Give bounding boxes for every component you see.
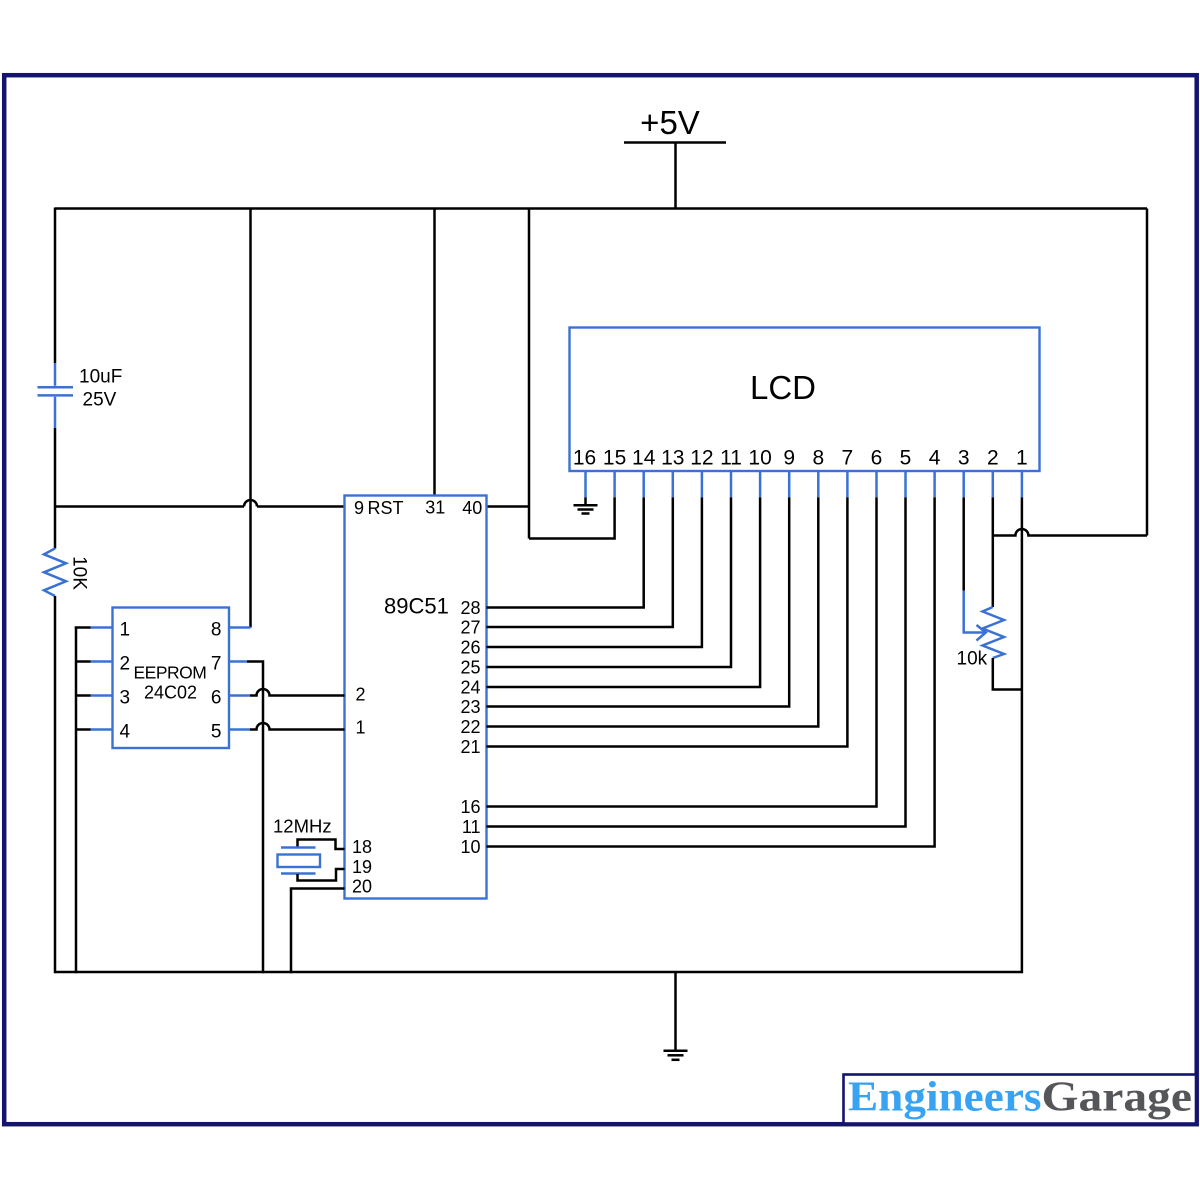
svg-text:1: 1 — [356, 718, 366, 738]
wire bottom ground rail — [55, 971, 1022, 974]
potentiometer wiper arrowhead — [977, 625, 986, 641]
wire 89C51 pin 16 to LCD pin 6 — [487, 498, 877, 807]
svg-text:23: 23 — [460, 697, 480, 717]
svg-text:10k: 10k — [957, 649, 988, 670]
LCD module box — [570, 328, 1040, 472]
svg-text:10: 10 — [748, 447, 771, 470]
svg-text:18: 18 — [352, 837, 372, 857]
svg-text:6: 6 — [211, 688, 222, 709]
89C51 left pin number labels — [352, 685, 372, 897]
capacitor C1 plates — [38, 387, 74, 395]
wire right rail to LCD pin 2 with hop — [993, 529, 1147, 535]
potentiometer RV1 zigzag — [983, 607, 1005, 658]
svg-text:Engineers: Engineers — [848, 1075, 1042, 1121]
wire vertical from rail toward pin 40 — [528, 209, 531, 539]
svg-text:89C51: 89C51 — [384, 594, 449, 619]
svg-text:11: 11 — [462, 817, 481, 837]
wire EEPROM pin5 to 89C51 pin1 with hop — [250, 723, 345, 730]
wire LCD pin 2 down to pot top — [992, 498, 995, 608]
89C51 microcontroller box — [345, 496, 487, 899]
wire 89C51 pin 27 to LCD pin 13 — [487, 498, 673, 628]
svg-text:14: 14 — [632, 447, 656, 470]
svg-text:2: 2 — [987, 447, 999, 470]
EEPROM pin1 wire to bus — [75, 626, 91, 629]
wire crystal bottom to 89C51 pin19 — [298, 869, 345, 881]
svg-text:6: 6 — [871, 447, 883, 470]
wire left rail upper segment (to capacitor) — [54, 208, 57, 364]
crystal X1 bottom plate — [281, 872, 316, 875]
+5V supply bar — [624, 141, 726, 144]
svg-text:13: 13 — [661, 447, 684, 470]
crystal X1 top plate — [281, 846, 316, 849]
svg-text:26: 26 — [460, 638, 480, 658]
svg-text:25: 25 — [460, 658, 480, 678]
svg-text:4: 4 — [120, 722, 131, 743]
ground symbol bottom center — [664, 1051, 688, 1060]
wire pin 40 horizontal — [487, 505, 530, 508]
wire 89C51 pin 21 to LCD pin 7 — [487, 498, 848, 747]
svg-text:10uF: 10uF — [79, 367, 122, 388]
wire 89C51 pin 23 to LCD pin 9 — [487, 498, 790, 707]
wire RST to pin 9 — [257, 505, 345, 508]
wire ground stub bottom center — [674, 972, 677, 1050]
svg-text:40: 40 — [462, 498, 482, 518]
EEPROM pin5 stub — [229, 728, 250, 731]
svg-text:11: 11 — [720, 447, 742, 470]
LCD pin stubs (blue) — [586, 471, 1022, 498]
wire RST hop over vertical — [244, 500, 257, 506]
LCD pin number labels 16..1 — [573, 447, 1028, 470]
wire 89C51 pin 22 to LCD pin 8 — [487, 498, 819, 727]
svg-text:4: 4 — [929, 447, 941, 470]
svg-text:1: 1 — [120, 620, 131, 641]
wire EEPROM left bus vertical — [75, 628, 78, 974]
node RST junction on left rail — [55, 505, 244, 508]
svg-text:5: 5 — [900, 447, 912, 470]
svg-text:28: 28 — [460, 598, 480, 618]
svg-text:8: 8 — [211, 620, 222, 641]
svg-text:2: 2 — [120, 654, 131, 675]
svg-text:3: 3 — [958, 447, 970, 470]
wire +5V stub — [674, 143, 677, 209]
wire 89C51 pin18 to crystal top — [298, 840, 345, 850]
svg-text:16: 16 — [460, 797, 480, 817]
EEPROM left pin labels — [120, 620, 131, 743]
svg-text:9: 9 — [783, 447, 795, 470]
wire vertical from rail to EEPROM pin 8 — [249, 209, 252, 628]
wire 89C51 pin20 to ground rail — [291, 889, 345, 974]
svg-text:+5V: +5V — [640, 104, 700, 141]
svg-text:19: 19 — [352, 857, 372, 877]
logo EngineersGarage box — [844, 1075, 1197, 1124]
resistor R1 10K zigzag — [44, 549, 66, 597]
svg-text:7: 7 — [842, 447, 854, 470]
svg-text:5: 5 — [211, 722, 222, 743]
EEPROM pin2 wire to bus — [76, 660, 91, 663]
wire right rail vertical — [1146, 209, 1149, 536]
wire 89C51 pin 11 to LCD pin 5 — [487, 498, 906, 827]
wire 89C51 pin 26 to LCD pin 12 — [487, 498, 702, 648]
wire 89C51 pin 25 to LCD pin 11 — [487, 498, 732, 668]
svg-text:9: 9 — [354, 498, 364, 518]
svg-text:25V: 25V — [83, 390, 117, 411]
wire vertical from rail to 89C51 pin 31 — [433, 209, 436, 496]
EEPROM pin8 stub — [229, 626, 251, 629]
svg-text:12: 12 — [690, 447, 713, 470]
svg-text:LCD: LCD — [750, 369, 816, 406]
svg-text:3: 3 — [120, 688, 131, 709]
svg-text:15: 15 — [603, 447, 626, 470]
svg-text:8: 8 — [812, 447, 824, 470]
svg-text:EEPROM: EEPROM — [134, 663, 207, 683]
wire left rail lower segment (resistor to ground rail) — [54, 596, 57, 973]
wire EEPROM pin6 to 89C51 pin2 with hop — [250, 689, 345, 695]
svg-text:10K: 10K — [69, 556, 90, 590]
svg-text:21: 21 — [460, 737, 480, 757]
89C51 right pin number labels — [460, 598, 480, 857]
svg-text:Garage: Garage — [1042, 1075, 1193, 1121]
wire left rail mid segment (capacitor to resistor) — [54, 428, 57, 549]
crystal X1 body — [278, 855, 321, 868]
ground under LCD pin 16 — [574, 498, 598, 514]
wire LCD pin 1 down to ground rail — [1021, 498, 1024, 974]
svg-text:16: 16 — [573, 447, 596, 470]
EEPROM right pin labels — [211, 620, 222, 743]
EEPROM 24C02 box — [113, 608, 230, 749]
EEPROM pin6 stub — [229, 694, 250, 697]
svg-text:22: 22 — [460, 717, 480, 737]
wire EEPROM pin7 to ground rail — [247, 662, 263, 974]
wire top +5V rail — [55, 207, 1147, 210]
wire pot bottom to LCD pin1 net — [993, 658, 1022, 690]
svg-text:2: 2 — [356, 685, 366, 705]
svg-text:12MHz: 12MHz — [273, 816, 332, 837]
svg-text:24C02: 24C02 — [144, 683, 197, 703]
capacitor C1 leads — [54, 363, 57, 428]
EEPROM pin7 stub — [229, 660, 247, 663]
svg-text:RST: RST — [368, 498, 404, 518]
svg-text:24: 24 — [460, 678, 480, 698]
wire 89C51 pin 28 to LCD pin 14 — [487, 498, 644, 608]
svg-text:10: 10 — [460, 837, 480, 857]
wire 89C51 pin 24 to LCD pin 10 — [487, 498, 761, 688]
wire to LCD pin 15 horizontal — [529, 498, 615, 539]
EEPROM pin3 wire to bus — [76, 694, 91, 697]
potentiometer wiper blue lead with arrow — [964, 591, 984, 633]
svg-text:27: 27 — [460, 618, 480, 638]
wire LCD pin 3 down to pot wiper lead — [962, 498, 965, 591]
EEPROM pin4 wire to bus — [76, 728, 91, 731]
svg-text:20: 20 — [352, 877, 372, 897]
svg-text:31: 31 — [425, 497, 445, 517]
svg-text:7: 7 — [211, 654, 222, 675]
svg-text:1: 1 — [1016, 447, 1028, 470]
EEPROM left pin stubs — [91, 628, 113, 730]
wire 89C51 pin 10 to LCD pin 4 — [487, 498, 935, 847]
